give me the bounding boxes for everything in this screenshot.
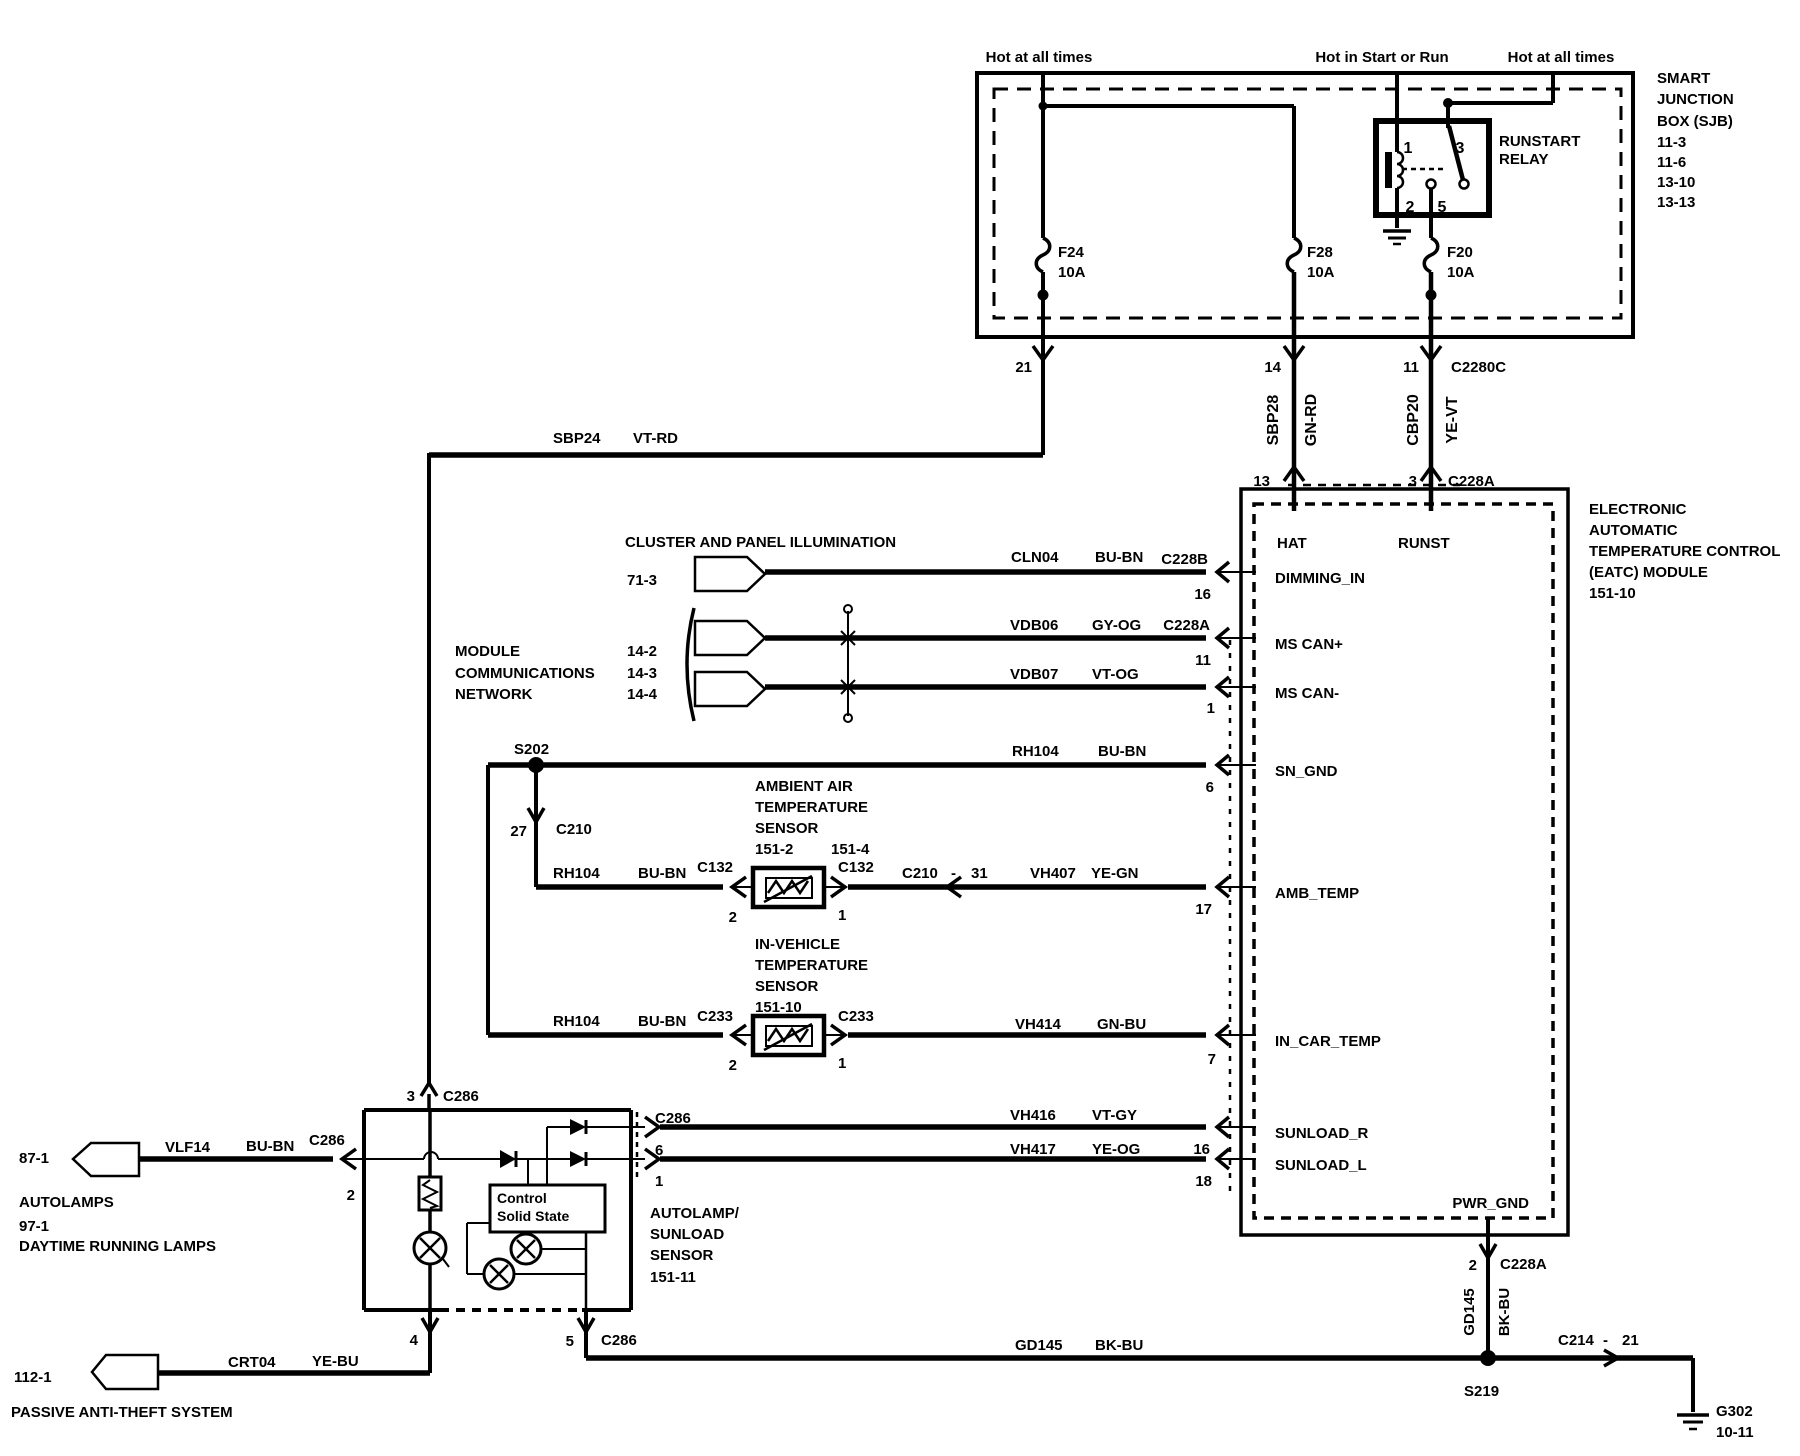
svg-text:11-6: 11-6	[1657, 154, 1686, 171]
svg-text:COMMUNICATIONS: COMMUNICATIONS	[455, 665, 595, 682]
svg-text:21: 21	[1015, 359, 1032, 376]
svg-text:F24: F24	[1058, 244, 1085, 261]
svg-text:YE-BU: YE-BU	[312, 1353, 359, 1370]
svg-text:27: 27	[510, 823, 527, 840]
svg-text:BU-BN: BU-BN	[638, 1013, 686, 1030]
svg-text:IN-VEHICLE: IN-VEHICLE	[755, 936, 840, 953]
svg-text:3: 3	[407, 1088, 415, 1105]
svg-text:NETWORK: NETWORK	[455, 686, 533, 703]
svg-text:CLUSTER AND PANEL ILLUMINATION: CLUSTER AND PANEL ILLUMINATION	[625, 534, 896, 551]
svg-text:16: 16	[1194, 586, 1211, 603]
svg-text:SMART: SMART	[1657, 70, 1710, 87]
svg-text:C214: C214	[1558, 1332, 1595, 1349]
svg-text:151-10: 151-10	[1589, 585, 1636, 602]
svg-text:13-13: 13-13	[1657, 194, 1695, 211]
svg-text:1: 1	[655, 1173, 663, 1190]
svg-text:CLN04: CLN04	[1011, 549, 1059, 566]
svg-text:SN_GND: SN_GND	[1275, 763, 1338, 780]
svg-text:2: 2	[729, 909, 737, 926]
svg-text:MS CAN-: MS CAN-	[1275, 685, 1339, 702]
svg-text:16: 16	[1193, 1141, 1210, 1158]
svg-text:1: 1	[1207, 700, 1215, 717]
svg-text:C210: C210	[902, 865, 938, 882]
svg-text:RH104: RH104	[553, 1013, 600, 1030]
svg-text:C286: C286	[443, 1088, 479, 1105]
svg-text:BU-BN: BU-BN	[638, 865, 686, 882]
svg-text:VDB07: VDB07	[1010, 666, 1058, 683]
svg-text:RUNSTART: RUNSTART	[1499, 133, 1580, 150]
svg-text:SUNLOAD: SUNLOAD	[650, 1226, 724, 1243]
svg-text:6: 6	[1206, 779, 1214, 796]
svg-text:C286: C286	[601, 1332, 637, 1349]
svg-text:21: 21	[1622, 1332, 1639, 1349]
svg-text:BK-BU: BK-BU	[1095, 1337, 1143, 1354]
svg-text:SBP24: SBP24	[553, 430, 601, 447]
svg-text:BU-BN: BU-BN	[1095, 549, 1143, 566]
svg-text:RH104: RH104	[553, 865, 600, 882]
svg-text:RH104: RH104	[1012, 743, 1059, 760]
svg-text:SENSOR: SENSOR	[755, 820, 819, 837]
svg-text:112-1: 112-1	[14, 1369, 52, 1386]
svg-text:VT-OG: VT-OG	[1092, 666, 1139, 683]
svg-text:Hot at all times: Hot at all times	[1508, 49, 1615, 66]
svg-text:C286: C286	[309, 1132, 345, 1149]
svg-text:SENSOR: SENSOR	[755, 978, 819, 995]
svg-text:14-2: 14-2	[627, 643, 657, 660]
svg-text:(EATC) MODULE: (EATC) MODULE	[1589, 564, 1708, 581]
svg-text:AUTOMATIC: AUTOMATIC	[1589, 522, 1678, 539]
svg-text:71-3: 71-3	[627, 572, 657, 589]
svg-text:IN_CAR_TEMP: IN_CAR_TEMP	[1275, 1033, 1381, 1050]
svg-text:PWR_GND: PWR_GND	[1452, 1195, 1529, 1212]
svg-text:4: 4	[410, 1332, 419, 1349]
svg-text:2: 2	[729, 1057, 737, 1074]
svg-text:C228A: C228A	[1500, 1256, 1547, 1273]
svg-text:DIMMING_IN: DIMMING_IN	[1275, 570, 1365, 587]
svg-text:SUNLOAD_L: SUNLOAD_L	[1275, 1157, 1367, 1174]
svg-text:97-1: 97-1	[19, 1218, 49, 1235]
svg-text:17: 17	[1195, 901, 1212, 918]
svg-text:AMB_TEMP: AMB_TEMP	[1275, 885, 1359, 902]
svg-text:GY-OG: GY-OG	[1092, 617, 1141, 634]
svg-text:F28: F28	[1307, 244, 1333, 261]
svg-text:VH417: VH417	[1010, 1141, 1056, 1158]
svg-text:YE-VT: YE-VT	[1444, 396, 1461, 443]
svg-text:S202: S202	[514, 741, 549, 758]
svg-text:BK-BU: BK-BU	[1496, 1288, 1513, 1336]
svg-text:2: 2	[1469, 1257, 1477, 1274]
svg-text:11: 11	[1195, 652, 1211, 669]
svg-text:CRT04: CRT04	[228, 1354, 276, 1371]
svg-text:BU-BN: BU-BN	[246, 1138, 294, 1155]
svg-text:AUTOLAMPS: AUTOLAMPS	[19, 1194, 114, 1211]
svg-text:C233: C233	[697, 1008, 733, 1025]
svg-text:AUTOLAMP/: AUTOLAMP/	[650, 1205, 740, 1222]
svg-text:G302: G302	[1716, 1403, 1753, 1420]
svg-text:1: 1	[838, 1055, 846, 1072]
svg-text:DAYTIME RUNNING LAMPS: DAYTIME RUNNING LAMPS	[19, 1238, 216, 1255]
svg-text:GN-BU: GN-BU	[1097, 1016, 1146, 1033]
svg-text:VH416: VH416	[1010, 1107, 1056, 1124]
svg-text:11: 11	[1403, 359, 1419, 376]
svg-text:Hot at all times: Hot at all times	[986, 49, 1093, 66]
svg-text:AMBIENT AIR: AMBIENT AIR	[755, 778, 853, 795]
svg-text:18: 18	[1195, 1173, 1212, 1190]
svg-text:MODULE: MODULE	[455, 643, 520, 660]
svg-text:C210: C210	[556, 821, 592, 838]
svg-text:VH407: VH407	[1030, 865, 1076, 882]
svg-text:2: 2	[347, 1187, 355, 1204]
svg-text:151-4: 151-4	[831, 841, 870, 858]
svg-text:RUNST: RUNST	[1398, 535, 1450, 552]
svg-text:C286: C286	[655, 1110, 691, 1127]
svg-text:SENSOR: SENSOR	[650, 1247, 714, 1264]
svg-text:VT-GY: VT-GY	[1092, 1107, 1137, 1124]
svg-text:11-3: 11-3	[1657, 134, 1686, 151]
svg-text:C132: C132	[838, 859, 874, 876]
svg-text:151-10: 151-10	[755, 999, 802, 1016]
svg-text:HAT: HAT	[1277, 535, 1307, 552]
svg-text:7: 7	[1208, 1051, 1216, 1068]
svg-text:14-3: 14-3	[627, 665, 657, 682]
svg-text:MS CAN+: MS CAN+	[1275, 636, 1343, 653]
svg-text:VDB06: VDB06	[1010, 617, 1058, 634]
svg-text:CBP20: CBP20	[1405, 394, 1422, 446]
svg-text:GN-RD: GN-RD	[1303, 394, 1320, 446]
svg-text:YE-OG: YE-OG	[1092, 1141, 1140, 1158]
svg-text:YE-GN: YE-GN	[1091, 865, 1139, 882]
svg-text:14: 14	[1264, 359, 1281, 376]
svg-text:-: -	[1603, 1332, 1608, 1349]
svg-text:13-10: 13-10	[1657, 174, 1695, 191]
svg-text:5: 5	[1438, 199, 1447, 216]
svg-text:10A: 10A	[1058, 264, 1086, 281]
svg-text:C2280C: C2280C	[1451, 359, 1506, 376]
svg-text:87-1: 87-1	[19, 1150, 49, 1167]
svg-text:5: 5	[566, 1333, 574, 1350]
svg-text:BOX (SJB): BOX (SJB)	[1657, 113, 1733, 130]
svg-text:GD145: GD145	[1461, 1288, 1478, 1336]
svg-text:C228B: C228B	[1161, 551, 1208, 568]
svg-text:10A: 10A	[1447, 264, 1475, 281]
svg-text:PASSIVE ANTI-THEFT SYSTEM: PASSIVE ANTI-THEFT SYSTEM	[11, 1404, 233, 1421]
svg-text:BU-BN: BU-BN	[1098, 743, 1146, 760]
svg-text:31: 31	[971, 865, 988, 882]
svg-text:14-4: 14-4	[627, 686, 658, 703]
svg-text:F20: F20	[1447, 244, 1473, 261]
svg-text:SUNLOAD_R: SUNLOAD_R	[1275, 1125, 1369, 1142]
svg-text:TEMPERATURE: TEMPERATURE	[755, 957, 868, 974]
svg-text:GD145: GD145	[1015, 1337, 1063, 1354]
svg-text:6: 6	[655, 1142, 663, 1159]
svg-text:Control: Control	[497, 1190, 547, 1206]
svg-text:Solid State: Solid State	[497, 1208, 570, 1224]
svg-text:1: 1	[838, 907, 846, 924]
svg-text:TEMPERATURE CONTROL: TEMPERATURE CONTROL	[1589, 543, 1780, 560]
svg-text:C132: C132	[697, 859, 733, 876]
svg-text:C228A: C228A	[1163, 617, 1210, 634]
svg-text:151-2: 151-2	[755, 841, 793, 858]
svg-text:-: -	[951, 865, 956, 882]
svg-text:RELAY: RELAY	[1499, 151, 1548, 168]
svg-text:Hot in Start or Run: Hot in Start or Run	[1315, 49, 1448, 66]
svg-text:2: 2	[1406, 199, 1415, 216]
svg-text:VT-RD: VT-RD	[633, 430, 678, 447]
svg-text:C233: C233	[838, 1008, 874, 1025]
svg-text:10A: 10A	[1307, 264, 1335, 281]
svg-text:ELECTRONIC: ELECTRONIC	[1589, 501, 1687, 518]
svg-text:VLF14: VLF14	[165, 1139, 211, 1156]
svg-text:JUNCTION: JUNCTION	[1657, 91, 1734, 108]
svg-text:10-11: 10-11	[1716, 1424, 1754, 1441]
svg-text:151-11: 151-11	[650, 1269, 696, 1286]
svg-text:VH414: VH414	[1015, 1016, 1062, 1033]
svg-text:1: 1	[1404, 140, 1413, 157]
svg-text:S219: S219	[1464, 1383, 1499, 1400]
svg-text:TEMPERATURE: TEMPERATURE	[755, 799, 868, 816]
svg-text:SBP28: SBP28	[1265, 395, 1282, 446]
